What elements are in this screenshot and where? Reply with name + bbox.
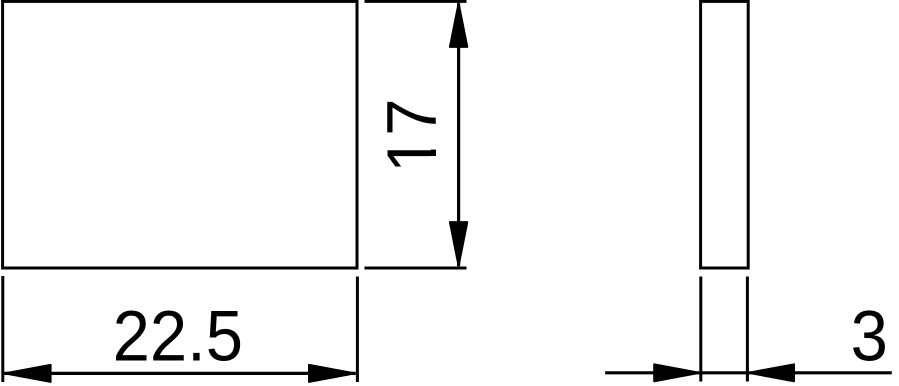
dimension 17: top extension line [365, 0, 467, 3]
dimension 3: arrowhead pointing left at right extension [748, 364, 794, 381]
svg-text:3: 3 [851, 295, 888, 376]
dimension 17: arrowhead down [450, 222, 467, 266]
front view outline (plate 22.5 x 17) [3, 1, 357, 268]
svg-text:22.5: 22.5 [113, 296, 243, 376]
dimension 22.5: right extension line [356, 277, 359, 383]
dimension 3: dimension line with outside tails [605, 371, 892, 374]
dimension 17: arrowhead up [450, 3, 467, 47]
dimension 3: right extension line [746, 277, 749, 382]
dimension 22.5: arrowhead left [5, 365, 51, 382]
dimension 3: arrowhead pointing right at left extension [654, 364, 700, 381]
side view outline (plate thickness 3) [701, 1, 749, 268]
dimension 3: left extension line [699, 277, 702, 382]
dimension 22.5: arrowhead right [309, 365, 355, 382]
dimension 17: dimension line [457, 4, 460, 267]
white masks removing foot serif of digit 1 [430, 136, 439, 150]
svg-text:17: 17 [373, 98, 452, 173]
dimension 22.5: dimension line [4, 372, 356, 375]
dimension 22.5: left extension line [1, 276, 4, 382]
dimension 17: bottom extension line [365, 267, 467, 270]
